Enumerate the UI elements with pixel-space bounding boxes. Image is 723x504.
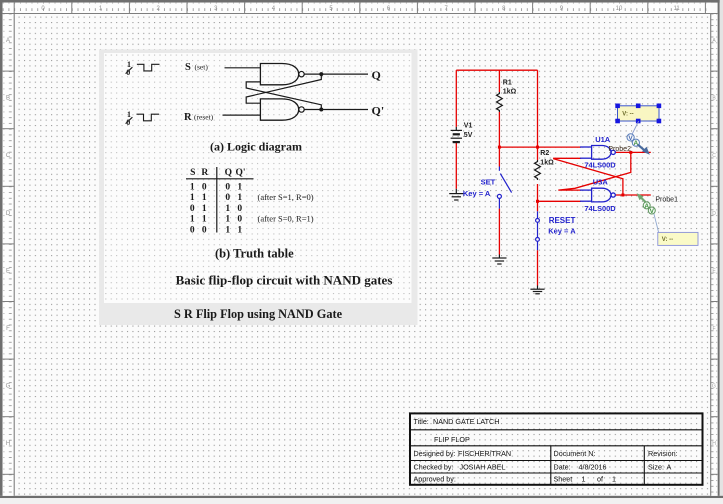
svg-text:H: H xyxy=(6,441,10,447)
svg-text:(a) Logic diagram: (a) Logic diagram xyxy=(210,139,302,153)
svg-text:4/8/2016: 4/8/2016 xyxy=(579,463,607,472)
svg-text:of: of xyxy=(597,475,603,484)
junction node QBAR output xyxy=(621,194,624,197)
wire V+ top rail from V1 to R2 column xyxy=(456,69,537,71)
probe Probe2 A circle xyxy=(632,139,639,146)
svg-text:Sheet: Sheet xyxy=(554,475,573,484)
svg-text:1: 1 xyxy=(190,183,195,193)
svg-text:C: C xyxy=(6,153,11,159)
svg-text:V: --: V: -- xyxy=(622,111,633,117)
figure waveform source for R input xyxy=(126,114,160,123)
svg-text:0: 0 xyxy=(190,204,195,214)
figure truth table header S R Q Q' xyxy=(190,168,245,178)
svg-text:Probe1: Probe1 xyxy=(655,196,678,203)
wire RESET switch lower lead to ground xyxy=(537,250,539,285)
svg-text:1kΩ: 1kΩ xyxy=(540,160,554,167)
right ruler band xyxy=(711,14,718,496)
svg-text:Approved by:: Approved by: xyxy=(414,475,456,484)
svg-text:S: S xyxy=(190,168,195,178)
svg-text:1: 1 xyxy=(225,215,230,225)
svg-text:A: A xyxy=(667,463,672,472)
wire V1 negative lead down to ground xyxy=(455,143,457,189)
figure NAND gate G2 xyxy=(260,99,298,120)
svg-text:R: R xyxy=(201,168,208,178)
svg-text:Q: Q xyxy=(372,68,381,82)
wire R1 upper lead xyxy=(498,70,500,92)
top ruler major divisions xyxy=(14,3,705,14)
svg-text:Title:: Title: xyxy=(414,417,429,426)
svg-text:R1: R1 xyxy=(503,80,512,87)
wire R2 upper lead xyxy=(537,147,539,160)
top ruler numbers 0-11 xyxy=(41,6,680,12)
resistor R1 zigzag xyxy=(497,92,503,112)
svg-text:Probe2: Probe2 xyxy=(608,146,631,153)
figure cross wire Q to G2 upper input xyxy=(246,74,321,103)
probe Probe2 readout box (selected) xyxy=(618,106,660,121)
figure junction node at Q' xyxy=(319,108,323,112)
svg-text:FISCHER/TRAN: FISCHER/TRAN xyxy=(458,449,511,458)
wire feedback Q down-diagonal to U3A input A xyxy=(558,152,631,190)
probe Probe2 V circle xyxy=(627,134,634,141)
svg-text:F: F xyxy=(712,326,715,332)
svg-text:Key = A: Key = A xyxy=(548,227,576,236)
svg-text:(after S=1, R=0): (after S=1, R=0) xyxy=(258,192,314,202)
svg-text:Basic flip-flop circuit with N: Basic flip-flop circuit with NAND gates xyxy=(176,273,393,288)
svg-text:U1A: U1A xyxy=(595,135,611,144)
left ruler major divisions xyxy=(3,14,15,475)
svg-text:1: 1 xyxy=(190,193,195,203)
svg-text:R: R xyxy=(184,112,192,123)
sheet border frame (dark outer edges) xyxy=(0,0,723,3)
svg-text:Key = A: Key = A xyxy=(463,189,491,198)
wire node SETBAR horizontal to U1A input A xyxy=(499,146,581,148)
battery V1 5V xyxy=(451,127,462,143)
probe Probe1 readout box xyxy=(658,232,698,245)
op NAND gate U3A 74LS00D xyxy=(580,188,615,202)
svg-text:11: 11 xyxy=(673,6,680,12)
resistor R2 zigzag xyxy=(535,160,541,180)
probe Probe1 A circle xyxy=(643,202,650,209)
wire SET switch lower lead to ground xyxy=(498,209,500,255)
wire RESET switch upper lead xyxy=(537,201,539,211)
svg-text:SET: SET xyxy=(481,178,496,187)
svg-text:Size:: Size: xyxy=(648,463,664,472)
figure NAND gate G1 xyxy=(260,64,298,85)
inset figure background (grey mat) xyxy=(99,49,418,325)
svg-text:1: 1 xyxy=(202,204,207,214)
figure waveform source for S input xyxy=(126,64,160,73)
figure wire G2 output to Q' xyxy=(304,109,368,111)
svg-text:D: D xyxy=(6,211,11,217)
svg-text:10: 10 xyxy=(616,6,623,12)
ground symbol below SET switch xyxy=(492,255,506,265)
probe Probe1 V circle xyxy=(648,207,655,214)
junction node R1/SET/U1A xyxy=(498,146,501,149)
inset figure inner white area xyxy=(104,53,412,303)
svg-text:(set): (set) xyxy=(195,62,209,71)
svg-text:1: 1 xyxy=(225,225,230,235)
svg-text:Q: Q xyxy=(225,168,232,178)
figure truth table divider lines xyxy=(216,167,218,233)
svg-text:0: 0 xyxy=(225,183,230,193)
top ruler band xyxy=(3,3,711,14)
svg-text:5V: 5V xyxy=(464,132,473,139)
svg-text:Q': Q' xyxy=(372,103,385,117)
figure truth table rows xyxy=(190,183,314,236)
svg-text:1: 1 xyxy=(225,204,230,214)
svg-text:Revision:: Revision: xyxy=(648,449,678,458)
wire R1 lower lead to node SETBAR xyxy=(498,112,500,147)
svg-text:1: 1 xyxy=(202,215,207,225)
svg-text:0: 0 xyxy=(237,215,242,225)
svg-text:0: 0 xyxy=(202,183,207,193)
wire U3A output to probe node QBAR xyxy=(616,194,651,196)
svg-text:A: A xyxy=(634,140,639,147)
svg-text:(b) Truth table: (b) Truth table xyxy=(215,247,294,261)
svg-text:0: 0 xyxy=(190,225,195,235)
wire feedback QBAR up-diagonal to U1A input B xyxy=(554,158,623,195)
wire V1 positive lead up to rail xyxy=(455,70,457,127)
junction node R2/RESET/U3A xyxy=(536,200,539,203)
svg-text:JOSIAH ABEL: JOSIAH ABEL xyxy=(460,463,506,472)
svg-text:(reset): (reset) xyxy=(194,112,214,121)
svg-text:0: 0 xyxy=(225,193,230,203)
svg-text:Date:: Date: xyxy=(554,463,571,472)
figure wire R to gate G2 input xyxy=(223,114,261,116)
svg-text:74LS00D: 74LS00D xyxy=(584,204,616,213)
svg-text:F: F xyxy=(6,326,10,332)
svg-text:A: A xyxy=(6,38,10,44)
svg-text:1: 1 xyxy=(237,183,242,193)
junction node Q output xyxy=(629,151,632,154)
svg-text:G: G xyxy=(6,384,11,390)
svg-text:E: E xyxy=(6,268,10,274)
wire SET switch upper lead xyxy=(498,147,500,166)
wire R2 lower lead to node RESETBAR xyxy=(537,184,539,201)
svg-text:H: H xyxy=(712,441,716,447)
svg-text:NAND GATE LATCH: NAND GATE LATCH xyxy=(433,417,499,426)
figure wire G1 output to Q xyxy=(304,73,368,75)
svg-text:74LS00D: 74LS00D xyxy=(584,161,616,170)
figure wire S to gate G1 input xyxy=(225,67,261,69)
ground symbol below V1 xyxy=(449,189,463,200)
probe Probe2 leader line xyxy=(632,121,638,134)
svg-text:1: 1 xyxy=(237,193,242,203)
svg-text:V: --: V: -- xyxy=(662,237,673,243)
svg-text:1: 1 xyxy=(237,225,242,235)
probe Probe2 selection handles xyxy=(615,104,661,124)
svg-text:D: D xyxy=(712,211,716,217)
right ruler letters xyxy=(712,38,716,447)
svg-text:G: G xyxy=(712,384,716,390)
title block text row 1: Title xyxy=(414,417,678,484)
wire U1A output to probe node Q xyxy=(616,151,651,153)
svg-text:0: 0 xyxy=(237,204,242,214)
svg-text:1: 1 xyxy=(190,215,195,225)
svg-text:0: 0 xyxy=(202,225,207,235)
right ruler major divisions xyxy=(711,14,718,475)
svg-text:RESET: RESET xyxy=(549,216,576,225)
svg-text:1: 1 xyxy=(202,193,207,203)
wire R2 column drop from rail xyxy=(537,70,539,147)
svg-text:R2: R2 xyxy=(540,150,549,157)
svg-text:S R Flip Flop using NAND Gate: S R Flip Flop using NAND Gate xyxy=(174,307,343,321)
probe Probe1 leader line xyxy=(654,214,659,233)
svg-text:1: 1 xyxy=(582,475,586,484)
junction node rail/R2 xyxy=(536,146,539,149)
svg-text:(after S=0, R=1): (after S=0, R=1) xyxy=(258,214,314,224)
svg-text:FLIP FLOP: FLIP FLOP xyxy=(434,435,470,444)
svg-text:0: 0 xyxy=(126,68,130,77)
probe Probe1 arrow xyxy=(637,193,644,200)
switch RESET (closed, Key = A) xyxy=(536,211,540,250)
svg-text:Q': Q' xyxy=(235,168,245,178)
svg-text:V1: V1 xyxy=(464,123,473,130)
svg-text:0: 0 xyxy=(126,118,130,127)
figure junction node at Q xyxy=(319,72,323,76)
svg-text:1kΩ: 1kΩ xyxy=(503,89,517,96)
switch SET (open, Key = A) xyxy=(497,167,511,209)
figure cross wire Q' to G1 lower input xyxy=(246,82,321,110)
svg-text:1: 1 xyxy=(612,475,616,484)
svg-text:B: B xyxy=(6,96,10,102)
title block frame xyxy=(410,413,703,484)
left ruler letters A-H xyxy=(6,38,11,447)
op NAND gate U1A 74LS00D xyxy=(580,146,615,160)
svg-text:S: S xyxy=(185,62,191,73)
probe Probe2 arrow xyxy=(638,145,645,151)
svg-text:Designed by:: Designed by: xyxy=(414,449,456,458)
ground symbol below RESET switch xyxy=(530,286,544,294)
svg-text:Document N:: Document N: xyxy=(554,449,596,458)
svg-text:Checked by:: Checked by: xyxy=(414,463,454,472)
left ruler band xyxy=(3,14,15,496)
svg-text:C: C xyxy=(712,153,716,159)
svg-text:U3A: U3A xyxy=(593,178,609,187)
wire node RESETBAR horizontal to U3A input B xyxy=(538,200,582,202)
